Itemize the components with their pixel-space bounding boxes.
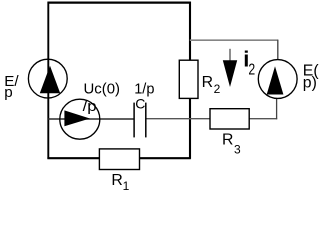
- svg-text:R: R: [222, 132, 233, 149]
- label R2: [202, 74, 221, 96]
- svg-text:/p: /p: [83, 98, 97, 115]
- current source U3 arrow: [267, 66, 284, 94]
- wire bottom: [47, 157, 190, 159]
- wire middle left (to capacitor): [48, 118, 134, 120]
- current source U1 E/p circle: [28, 59, 67, 98]
- wire left vertical: [47, 2, 49, 159]
- svg-text:p: p: [4, 84, 12, 101]
- wire top (node between E/p source and R2 branch): [48, 1, 191, 3]
- resistor R1 body: [99, 149, 139, 170]
- svg-text:2: 2: [214, 82, 221, 96]
- wire R3 to E(p) source: [249, 118, 277, 120]
- label R3: [222, 132, 241, 157]
- svg-text:2: 2: [248, 61, 255, 78]
- label i2: [243, 47, 255, 79]
- current source U2 Uc(0)/p circle: [60, 99, 100, 139]
- capacitor C1 right plate: [145, 103, 147, 138]
- current source U3 E(p) circle: [258, 60, 297, 99]
- svg-text:Uc(0): Uc(0): [84, 81, 121, 98]
- label E/p: [4, 73, 19, 101]
- label R1: [111, 172, 129, 193]
- svg-text:1: 1: [123, 179, 130, 192]
- arrow i2 stem: [229, 49, 231, 63]
- capacitor C1 left plate: [133, 103, 135, 138]
- wire gray top right (R2 branch to E(p) source): [190, 39, 278, 41]
- current source U1 arrow: [40, 66, 60, 93]
- resistor R2 body: [179, 60, 198, 98]
- svg-text:p): p): [303, 75, 317, 92]
- wire E(p) source bottom lead: [276, 98, 278, 119]
- svg-text:C: C: [135, 96, 145, 112]
- svg-text:R: R: [111, 172, 122, 189]
- wire E(p) source top lead: [277, 40, 279, 60]
- label E(p): [303, 62, 320, 91]
- label Uc(0)/p: [83, 81, 120, 115]
- svg-text:3: 3: [234, 142, 241, 156]
- wire right vertical: [189, 2, 191, 159]
- svg-text:R: R: [202, 74, 213, 91]
- arrow i2 head: [223, 60, 237, 87]
- current source U2 arrow (points right): [64, 110, 90, 126]
- resistor R3 body: [210, 109, 249, 129]
- wire middle right (capacitor to R3): [146, 118, 211, 120]
